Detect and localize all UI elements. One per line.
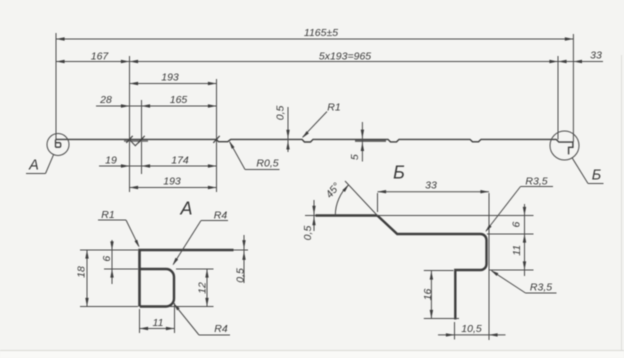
dimension 11 extension left [139,309,141,333]
extension line left end x=56 [55,33,57,139]
leader R4 upper (detail A) [201,220,228,222]
svg-text:A: A [28,158,39,174]
svg-text:R4: R4 [214,323,228,335]
dimension 10,5 extension left [454,322,456,340]
dimension 16 extension top [424,270,454,272]
svg-text:R3,5: R3,5 [525,176,547,188]
svg-text:18: 18 [76,266,88,278]
dimension 11 extension right [174,303,176,333]
svg-text:10,5: 10,5 [461,323,482,335]
svg-text:Б: Б [393,163,405,183]
detail circle A [47,134,69,156]
dimension 19 and 174 line [99,165,217,167]
detail circle Б [550,131,579,160]
svg-text:6: 6 [101,256,113,262]
faint bottom edge line [0,350,624,352]
svg-text:1165±5: 1165±5 [304,27,338,39]
extension line x=558 (965 right) [557,56,559,140]
svg-text:33: 33 [425,180,437,192]
dimension 6 and 11 line (detail Б) [524,204,526,276]
dimension 0,5 line (detail Б) [313,200,315,231]
rib band at first notch [124,140,148,142]
detail A flange thin extension [234,249,249,251]
svg-text:193: 193 [163,176,181,188]
svg-text:0,5: 0,5 [274,105,286,120]
dimension 16 extension bottom [424,318,459,320]
dimension 11 line [140,328,175,330]
dimension 12 extension top [176,268,214,270]
dimension 16 line [430,271,432,319]
leader to label Б [572,158,588,184]
detail Б flange [316,214,378,216]
dimension 18 extension top [80,249,138,251]
leader R0,5 [245,169,280,171]
extension line second notch x=216.5 [216,79,218,192]
extension line bend x=377.5 [377,193,379,212]
dimension 10,5 line [438,334,506,336]
dimension 12 extension bottom [170,306,214,308]
svg-text:28: 28 [99,94,112,106]
svg-text:0,5: 0,5 [302,226,314,241]
dimension chain line 167 / 5x193=965 / 33 [56,61,603,63]
leader R1 (main view) [303,112,327,138]
leader to label A [46,155,54,174]
tick slash at x=141.5 [138,136,144,143]
V mark at first notch [130,140,142,146]
tick slash at x=216.5 [213,136,219,143]
dimension 0,5 line (detail A) [243,235,245,283]
detail Б profile (slant, mid web, hook hem and leg) [377,216,486,320]
svg-text:R1: R1 [101,209,114,221]
detail Б flange thin extension left [305,215,316,217]
dimension 6 extension [104,268,138,270]
dimension 33 line (detail Б) [378,191,490,193]
svg-text:174: 174 [171,155,189,167]
wire: main profile line with stamped dips [55,139,573,154]
extension line right x=489 [488,193,490,340]
svg-text:165: 165 [170,94,188,106]
extension line first notch x=129.5 [129,56,131,192]
svg-text:16: 16 [422,289,434,301]
45 degree construction line [345,181,377,216]
leader R3,5 upper [521,186,554,188]
svg-text:33: 33 [590,50,602,62]
dimension 18 extension bottom [80,306,138,308]
dimension 5 rib depth [361,122,363,162]
dimension 18 line [86,250,88,307]
svg-text:R1: R1 [327,101,340,113]
45 degree arc [335,185,348,216]
detail A hem (bottom fold) [140,269,174,307]
svg-text:Б: Б [592,168,601,184]
dimension 12 line [206,269,208,307]
extension hem bottom level [489,269,534,271]
tick slash at x=129.5 [126,136,132,143]
dimension 6 line [111,240,113,284]
svg-text:5: 5 [349,154,361,160]
lighter strip below bottom edge [0,351,624,358]
dimension 193 bottom line [130,187,217,189]
svg-text:R0,5: R0,5 [256,158,278,170]
profile end A hook (hem) [56,140,61,148]
dimension 28 and 165 line [96,105,217,107]
dimension 0,5 thickness (main view) [287,107,289,152]
svg-text:11: 11 [511,245,523,256]
svg-text:19: 19 [105,155,117,167]
svg-text:6: 6 [511,222,523,228]
svg-text:11: 11 [153,317,164,329]
detail A profile outer (flange and left wall) [140,250,234,307]
svg-text:193: 193 [161,72,179,84]
extension mid web level [487,233,534,235]
svg-text:R3,5: R3,5 [530,282,552,294]
dimension 193 top line [130,83,217,85]
leader R3,5 lower [526,292,557,294]
svg-text:12: 12 [197,282,209,294]
extension line x=573.4 (1165 right) [572,34,574,142]
leader R1 (detail A) [98,219,126,221]
rib band at x=355..386 [355,140,386,142]
leader R4 lower (detail A) [199,334,230,336]
extension line first notch x=141.5 [141,100,143,174]
svg-text:A: A [179,199,192,219]
svg-text:167: 167 [91,51,110,63]
faint right edge line [621,55,623,350]
extension top flange level [378,215,534,217]
dimension 1165±5 line [56,38,573,40]
svg-text:0,5: 0,5 [235,268,247,283]
svg-text:5x193=965: 5x193=965 [319,51,371,63]
svg-text:R4: R4 [214,210,228,222]
